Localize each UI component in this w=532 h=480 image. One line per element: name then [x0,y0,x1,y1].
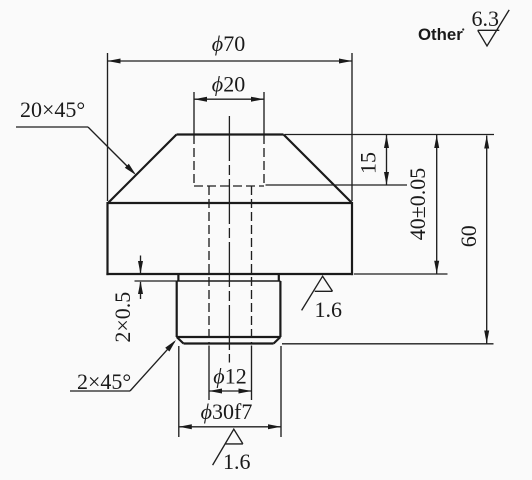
svg-text:ϕ30f7: ϕ30f7 [201,399,253,424]
svg-text:1.6: 1.6 [315,297,343,322]
svg-text:1.6: 1.6 [223,449,251,474]
svg-text:ϕ70: ϕ70 [212,31,245,56]
part outline: stub left edge [176,281,178,337]
dimension 60 [456,136,489,344]
hidden line: hole d20 right [263,135,265,186]
part outline: stub bottom edge [184,342,274,344]
dimension phi20 [194,72,264,135]
dimension phi30f7 [179,346,281,437]
extension line stub bottom right [282,343,494,345]
part outline: chamfer circle line [177,336,281,338]
part outline: relief groove left edge [177,275,179,282]
dimension 2x0.5 relief groove [110,256,177,343]
svg-text:20×45°: 20×45° [20,97,85,122]
part outline: bottom chamfer left diagonal [177,337,184,344]
svg-text:ϕ12: ϕ12 [213,364,246,389]
svg-text:40±0.05: 40±0.05 [405,168,430,241]
dimension phi12 [209,346,252,401]
hidden line: hole d20 left [193,135,195,186]
part outline: right chamfer slant [284,135,353,204]
svg-text:6.3: 6.3 [472,6,500,31]
part outline: bottom chamfer right diagonal [274,337,281,344]
part outline: stub right edge [279,281,281,337]
hidden line: hole d12 right [251,186,253,343]
dimension phi70 [108,31,353,201]
surface finish symbol 1.6 on stub bottom [213,429,251,474]
label 20x45 chamfer with leader [16,97,136,175]
svg-text:2×0.5: 2×0.5 [110,292,135,343]
svg-text:60: 60 [456,225,481,247]
dimension 40+-0.05 [405,135,439,274]
extension line top face right [285,134,494,136]
part outline: relief groove bottom line [177,280,281,282]
centerline [228,116,230,363]
extension line body bottom right [354,273,448,275]
part outline: body left edge [106,202,108,275]
part outline: top face [177,133,284,135]
part outline: body bottom edge [106,273,353,275]
dimension 15 [356,135,390,185]
label 2x45 chamfer with leader [70,340,176,394]
hidden line: hole d12 left [208,186,210,343]
extension line hole bottom [266,184,408,186]
svg-text:ϕ20: ϕ20 [212,72,245,97]
other surfaces roughness note 6.3 [418,6,509,46]
part outline: body top edge [108,202,352,204]
part outline: relief groove right edge [278,275,280,282]
hidden line: hole d20 bottom [194,185,264,187]
part outline: body right edge [351,202,353,275]
part outline: left chamfer slant [108,135,177,204]
svg-text:15: 15 [356,152,381,174]
svg-text:2×45°: 2×45° [77,369,131,394]
surface finish symbol 1.6 on body bottom [302,276,342,322]
svg-text:Other: Other [418,25,463,44]
